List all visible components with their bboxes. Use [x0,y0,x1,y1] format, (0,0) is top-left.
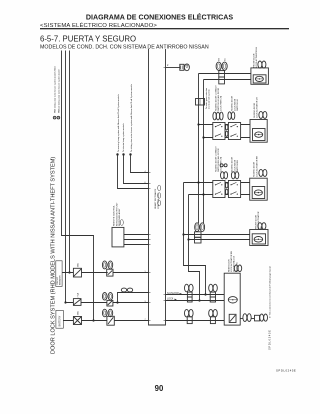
svg-text:SLIDING DOOR: SLIDING DOOR [254,161,256,177]
vertical bus D from row2 [189,195,200,301]
wire row1 to control unit [62,272,148,274]
node junction busD/actuator4 feed [187,238,189,240]
svg-text:SLIDING DOOR: SLIDING DOOR [232,95,234,111]
door lock switch row1 labels [214,85,239,111]
connector C6 on bus3 [185,309,194,323]
svg-text:REAR DOOR: REAR DOOR [227,259,230,272]
svg-text:DIAGRAMA DE CONEXIONES ELÉCTRI: DIAGRAMA DE CONEXIONES ELÉCTRICAS [86,12,233,21]
svg-text:SMART ENTRANCE: SMART ENTRANCE [154,188,157,209]
battery label box [56,310,63,328]
svg-text:LOCK ACTUATOR RH: LOCK ACTUATOR RH [230,251,233,272]
svg-text:7.5A: 7.5A [77,293,80,298]
node junction S2/stub [116,301,118,303]
node terminal dot B [122,153,124,155]
control unit box [149,49,166,325]
control unit pin ticks [149,68,166,321]
connector C9 box [255,315,260,321]
svg-text:LOCK KNOB: LOCK KNOB [234,159,236,172]
svg-text:To warning lamp system with Ni: To warning lamp system with Nissan Anti-… [117,94,120,152]
wire dot C to control unit [131,155,149,173]
svg-text:To main power window: To main power window [205,87,208,109]
wire actuator4 feed lower [189,239,250,241]
svg-text:SLIDING DOOR: SLIDING DOOR [254,102,256,118]
bus2 label LOCK [167,299,177,301]
wire row2 to control unit [66,302,149,304]
bus2 lock wire [166,300,225,302]
main switch S1 box [107,269,113,276]
svg-text:SWITCH RH (ALL DOOR: SWITCH RH (ALL DOOR [217,148,220,172]
key cylinder switch [180,64,190,71]
switch S3 connector pills [102,309,112,317]
node junction busC/bus1 [204,293,206,295]
wire A5 to hidden connector [240,318,243,320]
vertical bus B [203,80,205,224]
svg-text:90: 90 [155,384,164,393]
svg-text:7: 7 [144,319,145,321]
vertical bus C from row2 [184,183,206,295]
control unit label [154,185,161,209]
wire actuator1 feed lower [204,79,251,81]
wire stub to pin 293 [118,293,149,303]
wire row1 lower [204,137,251,139]
svg-text:REMOTE CONTROL: REMOTE CONTROL [114,205,116,226]
svg-text:LOCK ACTUATOR LH: LOCK ACTUATOR LH [256,97,259,118]
svg-text:SWITCH RH: SWITCH RH [237,160,239,172]
actuator A4 label [256,211,266,229]
svg-text:3: 3 [144,301,145,303]
wire receiver pin 2 [124,239,149,241]
svg-text:30A: 30A [77,311,80,315]
wire actuator4 feed upper [184,234,250,236]
svg-text:※ This connector is not shown: ※ This connector is not shown in Foldout… [268,266,271,318]
svg-text:To sliding door auto closure s: To sliding door auto closure system with… [130,84,133,152]
connector C9 pills [260,314,268,321]
svg-text:LOCK: LOCK [167,299,174,301]
node terminal dot C [129,153,131,155]
switch row1 inter connector pills [226,125,228,137]
fuse row2 [73,293,81,306]
connector C2 on vertical buses [196,87,211,109]
svg-text:FRONT DOOR: FRONT DOOR [256,215,258,229]
wire C8 to C9 [251,318,254,320]
switch row2 connector pills [221,172,239,179]
note 2 without sliding door auto closure system models [57,69,60,119]
node junction v2/row2 [64,301,66,303]
svg-text:SWITCH LH: SWITCH LH [237,99,239,111]
wire row3 battery to control unit [63,320,148,322]
actuator A4 front door lock actuator RH [250,230,268,246]
actuator A2 sliding door lock actuator [250,120,267,143]
switch row1 connector pills [213,112,235,120]
bus1 unlock wire [166,294,225,296]
svg-text:To interior lamp system models: To interior lamp system models [122,123,125,152]
main switch S1 connector pills [102,261,112,269]
switch row2 inter connector pills [226,183,228,195]
svg-text:With sliding door auto closure: With sliding door auto closure system mo… [54,65,57,113]
switch S2 box [107,300,113,306]
svg-text:6-5-7. PUERTA Y SEGURO: 6-5-7. PUERTA Y SEGURO [40,34,136,43]
connector C3 end of vertical buses [195,223,205,243]
actuator A5 label [227,251,241,272]
connector C5 on bus1/bus2 [209,284,218,302]
svg-text:KEYLESS ENTRY UNIT: KEYLESS ENTRY UNIT [116,202,118,226]
switch row1 box RH [228,123,240,140]
wire row2 lower [189,194,250,196]
node junction busA/row2 [197,181,199,183]
svg-text:LOCK SWITCH): LOCK SWITCH) [221,96,223,111]
svg-text:RECEIVER ASSY: RECEIVER ASSY [118,208,121,226]
svg-text:Without sliding door auto clos: Without sliding door auto closure system… [57,69,60,113]
svg-text:DOOR LOCK SYSTEM (RHD MODELS W: DOOR LOCK SYSTEM (RHD MODELS WITH NISSAN… [51,157,57,354]
svg-text:BATTERY: BATTERY [59,315,62,326]
wire key cylinder to control unit pin 2 [166,67,180,69]
svg-text:MODELOS DE COND. DCH. CON SIST: MODELOS DE COND. DCH. CON SISTEMA DE ANT… [40,44,209,50]
svg-text:1: 1 [144,271,145,273]
to-system reference texts [117,84,133,152]
bus1 label N-UNLOCK [167,293,182,295]
node junction busB/row2 [202,193,204,195]
switch S2 connector pills [102,293,112,301]
node junction busD/bus2 [198,299,200,301]
node terminal dot A [116,153,118,155]
node junction busB/row1 [202,136,204,138]
connector C1 on actuator1 feed [216,57,227,84]
actuator A3 sliding door lock actuator [250,178,268,200]
switch row2 box RH [228,181,240,198]
svg-text:FRONT DOOR: FRONT DOOR [254,53,256,67]
svg-text:N-UNLOCK: N-UNLOCK [167,293,179,295]
switch S3 box [107,316,114,325]
remote keyless receiver label [114,202,124,226]
wire ign feed v3 [69,51,71,273]
node junction busC/actuator4 feed [182,233,184,235]
bus3 sensor wire [166,320,225,322]
wire dot B to control unit [124,155,149,184]
wire battery feed v1 [62,51,94,321]
actuator A1 front door lock actuator [251,68,269,84]
connector C7 on bus3 [209,309,218,323]
svg-text:30A: 30A [77,263,80,267]
actuator A1 label [254,46,266,68]
fusible link row3 [73,311,81,325]
connector on stub wire [121,288,132,292]
vertical bus A [198,74,200,224]
node junction v3/row1 [68,271,70,273]
svg-text:and door lock system: and door lock system [208,89,211,109]
door lock switch row2 labels [214,146,239,172]
circuit breaker label box [56,261,62,287]
switch row2 box LH [213,181,225,198]
svg-text:BREAKER: BREAKER [59,275,62,285]
switch row1 box LH [213,123,225,140]
wire row1 upper [199,124,251,126]
svg-text:SLIDING DOOR: SLIDING DOOR [232,156,234,172]
wire row2 upper [184,182,250,184]
connector C8 pills [243,314,251,322]
svg-text:LOCK KNOB: LOCK KNOB [234,98,236,111]
svg-text:SLIDING DOOR CONTACT: SLIDING DOOR CONTACT [214,85,217,111]
wire acc feed v2 [65,51,67,303]
svg-text:LOCK ACTUATOR RH: LOCK ACTUATOR RH [255,156,258,177]
node junction v1/row3 [92,319,94,321]
control unit pin numbers [144,171,145,321]
connector C4 on bus1/bus2 [185,284,194,302]
actuator A5 rear door lock actuator with unlock sensor [224,273,240,325]
fuse row1 [73,263,81,277]
wire receiver pin 1 [124,234,149,236]
note 1 with sliding door auto closure system models [53,65,56,119]
svg-text:SLIDING DOOR CONTACT: SLIDING DOOR CONTACT [214,146,217,172]
svg-text:SPDL0245E: SPDL0245E [276,369,296,373]
node junction busA/row1 [197,123,199,125]
wire receiver pin 3 [124,244,149,246]
remote keyless receiver box [112,227,124,247]
wire dot A to control unit [118,155,149,189]
header [40,12,289,50]
actuator A3 label [254,156,267,177]
svg-text:SPDL0245E: SPDL0245E [268,329,272,350]
actuator A2 label [254,97,267,118]
wire actuator1 feed upper [199,73,251,75]
svg-text:SWITCH LH (ALL DOOR: SWITCH LH (ALL DOOR [217,87,220,111]
